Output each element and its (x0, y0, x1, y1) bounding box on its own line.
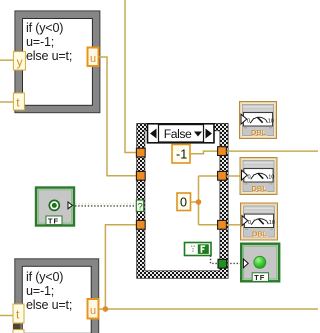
svg-text:?: ? (138, 201, 143, 212)
boolean constant F (185, 243, 212, 256)
terminal t (F2) (13, 304, 24, 323)
svg-text:False: False (164, 127, 192, 141)
indicator DBL3 (meter) (241, 203, 278, 240)
boolean wire from TF control to case selector (75, 205, 136, 207)
svg-text:u=-1;: u=-1; (26, 284, 54, 298)
terminal u (F1 output) (88, 48, 99, 67)
wire from R3 to DBL3 (227, 224, 243, 226)
terminal u (F2 output) (88, 299, 99, 319)
svg-text:u=-1;: u=-1; (26, 35, 54, 49)
indicator DBL2 (meter) (240, 158, 277, 195)
indicator TF (boolean LED) (241, 244, 279, 283)
svg-text:u: u (90, 53, 96, 65)
tunnel L3 (136, 220, 145, 229)
wire from top edge to case left tunnel L1 (125, 0, 137, 153)
wire from R2 to DBL2 (227, 175, 243, 177)
terminal y (F2, partially cut at bottom) (13, 324, 24, 333)
svg-text:u: u (90, 305, 96, 317)
boolean wire from F constant to green tunnel (211, 256, 219, 264)
svg-text:else u=t;: else u=t; (26, 298, 72, 312)
numeric constant -1 (172, 145, 190, 164)
case selector label "False" (148, 124, 215, 143)
formula node F2 text (26, 270, 72, 312)
wire from -1 to tunnel R1 (190, 151, 218, 154)
boolean wire from green tunnel to TF indicator (227, 262, 244, 264)
wire from F2 u to right edge and up to case left tunnel L3 (99, 225, 319, 309)
tunnel L2 (136, 171, 145, 180)
junction dot on F2 u wire (103, 306, 109, 312)
wire from 0 to tunnels R2 and R3 (191, 176, 219, 225)
svg-text:-1: -1 (176, 148, 187, 162)
tunnel L1 (136, 148, 145, 157)
tunnel R3 (218, 220, 227, 229)
wire to F1 input y (0, 59, 14, 61)
junction dot on 0 wire (196, 199, 202, 205)
green tunnel (boolean out) (218, 259, 227, 268)
wire from F1 u to case left tunnel L2 (99, 57, 137, 176)
svg-text:TF: TF (254, 273, 265, 282)
tunnel R2 (218, 171, 227, 180)
indicator DBL1 (meter, unwired) (240, 102, 277, 139)
wire to F2 input t (0, 315, 13, 317)
svg-text:0: 0 (180, 196, 187, 210)
formula node F1 (top-left) frame (14, 10, 100, 113)
wire from R1 to right edge (227, 150, 319, 152)
svg-text:y: y (17, 55, 23, 69)
numeric constant 0 (177, 193, 191, 211)
boolean control TF (left) (36, 188, 74, 226)
case selector terminal ? (136, 200, 143, 212)
svg-text:if (y<0): if (y<0) (26, 21, 63, 35)
formula node F2 (bottom-left) frame (14, 258, 99, 333)
terminal y (F1) (13, 52, 25, 70)
wire to F1 input t (0, 101, 14, 103)
case structure border (137, 123, 229, 278)
svg-text:TF: TF (48, 216, 59, 225)
formula node F1 text (26, 21, 72, 63)
tunnel R1 (218, 147, 227, 156)
svg-text:else u=t;: else u=t; (26, 49, 72, 63)
terminal t (F1) (13, 93, 24, 110)
svg-text:if (y<0): if (y<0) (26, 270, 63, 284)
